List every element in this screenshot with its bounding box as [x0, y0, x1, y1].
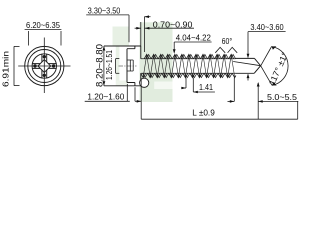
- inner circle (pan dia): [28, 50, 61, 83]
- thread bottom teeth: [141, 73, 236, 77]
- flute inner line: [233, 62, 260, 66]
- svg-text:5.0~5.5: 5.0~5.5: [267, 92, 297, 102]
- svg-text:4.04~4.22: 4.04~4.22: [176, 33, 211, 43]
- dim 1.41: [181, 78, 215, 92]
- svg-text:1.26~1.51: 1.26~1.51: [104, 50, 114, 80]
- svg-text:60°: 60°: [222, 36, 233, 46]
- green patch above flange ext: [116, 81, 128, 86]
- svg-text:3.30~3.50: 3.30~3.50: [88, 5, 121, 15]
- green watermark rect A (behind head): [113, 27, 130, 46]
- detail circle on flange: [140, 78, 149, 87]
- white patch inside band: [154, 82, 172, 90]
- 4.04~4.22 down arrow: [173, 49, 176, 54]
- 5.0~5.5 arrows: [230, 100, 235, 103]
- svg-text:1.20~1.60: 1.20~1.60: [87, 92, 124, 102]
- green strip along bracket: [116, 46, 120, 86]
- thread root lines: [141, 59, 236, 74]
- 117 deg arc: [272, 47, 288, 86]
- 1.20~1.60 arrow: [137, 100, 142, 103]
- thread top teeth echo: [146, 54, 236, 58]
- recess center diamond: [38, 60, 51, 73]
- arrowheads: [103, 15, 277, 102]
- svg-text:6.91min: 6.91min: [1, 51, 11, 87]
- 8.20~8.80 arrows: [103, 46, 106, 51]
- flange right face: [140, 46, 142, 86]
- recess ring: [32, 54, 56, 78]
- 1.41 arrows: [182, 87, 187, 90]
- green watermark band B: [140, 22, 173, 102]
- dim 0.70~0.90: [135, 22, 194, 46]
- svg-text:0.70~0.90: 0.70~0.90: [153, 20, 193, 30]
- thread second flank lines: [147, 55, 235, 77]
- centerline horizontal: [18, 65, 70, 67]
- dim 8.20~8.80 vertical dim line: [103, 46, 105, 86]
- head centerline: [119, 65, 137, 67]
- thread top teeth: [144, 54, 234, 58]
- phillips slot N: [42, 54, 47, 62]
- 3.30~3.50 left arrow at x=144.4: [144, 15, 149, 18]
- dim 6.20~6.35 line: [25, 30, 62, 46]
- centerline vertical: [43, 38, 45, 94]
- 60 deg flank lines: [215, 47, 237, 53]
- pan left face: [126, 49, 128, 83]
- svg-text:6.20~6.35: 6.20~6.35: [26, 20, 60, 30]
- 0.70~0.90 arrows: [136, 27, 141, 30]
- dim 6.91min bracket: [14, 46, 20, 85]
- flange top line + extension to dim: [104, 45, 141, 47]
- svg-text:3.40~3.60: 3.40~3.60: [250, 22, 283, 32]
- pan top/bottom: [127, 49, 135, 83]
- 117 deg fan rays: [261, 47, 272, 86]
- flange left faces: [134, 46, 136, 86]
- dim 1.26~1.51 bracket: [116, 59, 120, 74]
- phillips slot W: [32, 64, 40, 69]
- dim 3.40~3.60: [248, 32, 286, 81]
- phillips slot E: [48, 64, 56, 69]
- drill point flute edges: [236, 58, 255, 73]
- outer circle (flange dia): [25, 46, 64, 85]
- 3.40~3.60 arrows: [247, 54, 250, 59]
- thread helix lines: [143, 55, 231, 77]
- recess dots: [33, 55, 55, 77]
- 117 arc arrowheads: [272, 46, 277, 49]
- drill point cone: [254, 58, 260, 73]
- dim 4.04~4.22 leader: [174, 42, 211, 52]
- flange bottom line + extension: [104, 85, 141, 87]
- dim L bottom line: [141, 101, 298, 119]
- dim 5.0~5.5: [228, 78, 299, 120]
- thread bottom teeth echo: [143, 73, 233, 77]
- dim 1.20~1.60: [85, 84, 142, 119]
- 1.20~1.60 right extension over circle: [140, 78, 142, 87]
- recess side profile: [127, 60, 133, 71]
- phillips slot S: [42, 70, 47, 78]
- svg-text:L ±0.9: L ±0.9: [192, 107, 215, 117]
- dim 3.30~3.50 leader: [86, 15, 150, 52]
- svg-text:1.41: 1.41: [199, 82, 213, 92]
